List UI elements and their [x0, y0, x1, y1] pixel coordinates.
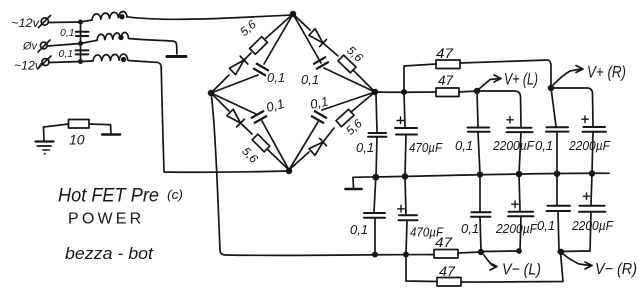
junction input bus row3 — [79, 60, 82, 63]
svg-text:47: 47 — [435, 235, 453, 250]
svg-text:47: 47 — [438, 73, 453, 88]
capacitor 0,1 (lower-left snubber) — [211, 93, 289, 170]
svg-text:0,1: 0,1 — [267, 70, 285, 85]
node V+(R) — [549, 86, 554, 91]
svg-text:47: 47 — [436, 46, 454, 61]
resistor 5,6 (upper-right) — [338, 55, 375, 92]
node V-(L) — [479, 250, 484, 255]
wire V-(L) node to 2200uF column — [481, 250, 519, 253]
wire up branch to upper 47 — [404, 64, 436, 92]
svg-text:bezza - bot: bezza - bot — [65, 244, 154, 263]
svg-text:POWER: POWER — [68, 211, 144, 228]
svg-text:V− (L): V− (L) — [502, 262, 541, 279]
junction input bus row2 — [79, 42, 82, 45]
svg-text:0,1: 0,1 — [301, 72, 319, 87]
junction 0,1 L / rail — [478, 172, 483, 177]
capacitor 0,1 (V- L) — [471, 174, 491, 251]
svg-text:V+ (L): V+ (L) — [504, 71, 538, 89]
resistor 47 (V- R channel) — [437, 252, 563, 286]
svg-text:2200µF: 2200µF — [571, 218, 614, 233]
wire L3 down to bridge bottom node — [129, 61, 290, 173]
wire J1 to bus — [49, 21, 81, 24]
capacitor 470uF (raw V- rail) — [398, 176, 418, 254]
svg-text:Hot FET Pre: Hot FET Pre — [58, 186, 159, 207]
node left (bridge V-) — [209, 91, 214, 96]
junction 0,1 raw / V- rail — [373, 252, 377, 256]
terminal J3 — [38, 56, 51, 69]
arrow to V+(L) — [479, 75, 501, 89]
svg-text:470µF: 470µF — [409, 140, 443, 155]
svg-text:0,1: 0,1 — [264, 96, 285, 115]
ground (earth, left of R10) — [35, 127, 53, 155]
wire lower branch down — [406, 255, 437, 282]
capacitor 470uF (raw V+ rail) — [395, 92, 417, 176]
node top (bridge AC top) — [291, 12, 296, 17]
inductor L1 — [81, 12, 128, 22]
diode D2 (top node to right node) — [293, 14, 338, 56]
svg-text:0,1: 0,1 — [356, 140, 374, 155]
junction 2200uF R / rail — [590, 171, 595, 176]
ground symbol (rail left end) — [346, 177, 362, 189]
resistor 5,6 (upper-left) — [250, 14, 293, 54]
node V-(R) — [559, 250, 564, 255]
capacitor 0,1 (lower-right snubber) — [289, 92, 375, 170]
ground (chassis, right of R10) — [102, 125, 120, 135]
resistor 5,6 (lower-left) — [252, 134, 289, 170]
capacitor 0,1 (upper-left snubber) — [211, 14, 293, 93]
terminal J1 — [39, 16, 51, 28]
wire V-(R) node segment — [558, 250, 590, 253]
capacitor 0,1 (raw V+ rail) — [368, 94, 387, 177]
svg-text:5,6: 5,6 — [239, 144, 261, 166]
capacitor 2200uF (V+ L) — [477, 91, 533, 174]
node right (bridge V+) — [373, 90, 378, 95]
arrow to V-(L) — [484, 255, 497, 270]
svg-text:2200µF: 2200µF — [495, 221, 538, 236]
capacitor 0,1 input bus upper — [76, 32, 89, 36]
junction 0,1 R / rail — [555, 171, 560, 176]
junction 2200uF L / rail — [517, 172, 522, 177]
svg-text:5,6: 5,6 — [237, 17, 259, 39]
ground (0v secondary) — [167, 55, 186, 58]
wire L1 to bridge top node — [127, 15, 293, 19]
svg-text:10: 10 — [69, 132, 85, 148]
svg-text:2200µF: 2200µF — [568, 138, 611, 153]
resistor 47 (V- L channel) — [434, 250, 481, 259]
resistor 47 (V+ R channel) — [436, 60, 548, 69]
svg-text:0,1: 0,1 — [537, 218, 555, 233]
terminal J2 — [38, 40, 50, 52]
capacitor 0,1 (V+ L) — [468, 91, 490, 174]
junction 470uF and lower branch / V- rail — [404, 252, 408, 256]
capacitor 0,1 (upper-right snubber) — [293, 14, 375, 92]
svg-text:0,1: 0,1 — [350, 222, 368, 237]
junction 470uF / rail — [403, 174, 408, 179]
junction raw 0,1 / rail — [373, 175, 378, 180]
capacitor 0,1 (V+ R) — [546, 88, 569, 174]
wire J3 to bus — [50, 62, 81, 63]
svg-text:2200µF: 2200µF — [492, 138, 535, 153]
diode D4 (bottom node to right node) — [289, 128, 334, 170]
wire input bus vertical — [80, 22, 82, 62]
svg-text:~12v: ~12v — [11, 16, 40, 30]
capacitor 0,1 (raw V- rail) — [364, 177, 385, 253]
junction input bus row1 — [79, 20, 82, 23]
svg-text:0,1: 0,1 — [59, 48, 74, 60]
svg-text:0,1: 0,1 — [455, 138, 473, 153]
inductor L3 — [81, 54, 128, 61]
diode D3 (left node to bottom node) — [211, 93, 252, 134]
svg-text:~12v: ~12v — [14, 59, 42, 73]
capacitor 2200uF (V+ R) — [551, 88, 606, 174]
node bottom (bridge AC bottom) — [287, 169, 292, 174]
svg-text:Øv: Øv — [22, 41, 39, 53]
wire V+ from bridge right node — [375, 91, 436, 93]
svg-text:5,6: 5,6 — [343, 116, 365, 138]
inductor L2 — [81, 32, 129, 43]
svg-text:0,1: 0,1 — [461, 221, 479, 236]
arrow to V+(R) — [553, 66, 583, 86]
node V+(L) — [475, 89, 480, 94]
capacitor 2200uF (V- R) — [579, 174, 606, 252]
ground rail — [353, 173, 609, 177]
capacitor 2200uF (V- L) — [508, 174, 534, 251]
svg-text:0,1: 0,1 — [535, 138, 553, 153]
svg-text:5,6: 5,6 — [344, 43, 366, 65]
wire down to V+(R) node — [548, 60, 551, 87]
wire L2 to ground — [129, 39, 178, 55]
junction 2200uF L / V- wire — [517, 249, 521, 253]
svg-text:(c): (c) — [167, 187, 183, 202]
diode D1 (left node to top node) — [211, 53, 251, 93]
resistor 10 — [44, 120, 111, 129]
resistor 47 (V+ L channel) — [436, 88, 477, 97]
capacitor 0,1 (V- R) — [547, 174, 571, 251]
resistor 5,6 (lower-right) — [336, 92, 375, 127]
svg-text:V+ (R): V+ (R) — [587, 63, 626, 82]
svg-text:V− (R): V− (R) — [595, 261, 637, 278]
junction V+ split — [402, 90, 406, 94]
wire J2 to bus — [48, 44, 81, 47]
wire V- from bridge left node — [211, 93, 434, 255]
capacitor 0,1 input bus lower — [76, 50, 89, 54]
svg-text:47: 47 — [439, 264, 456, 279]
arrow to V-(R) — [563, 254, 592, 269]
svg-text:0,1: 0,1 — [60, 27, 75, 39]
